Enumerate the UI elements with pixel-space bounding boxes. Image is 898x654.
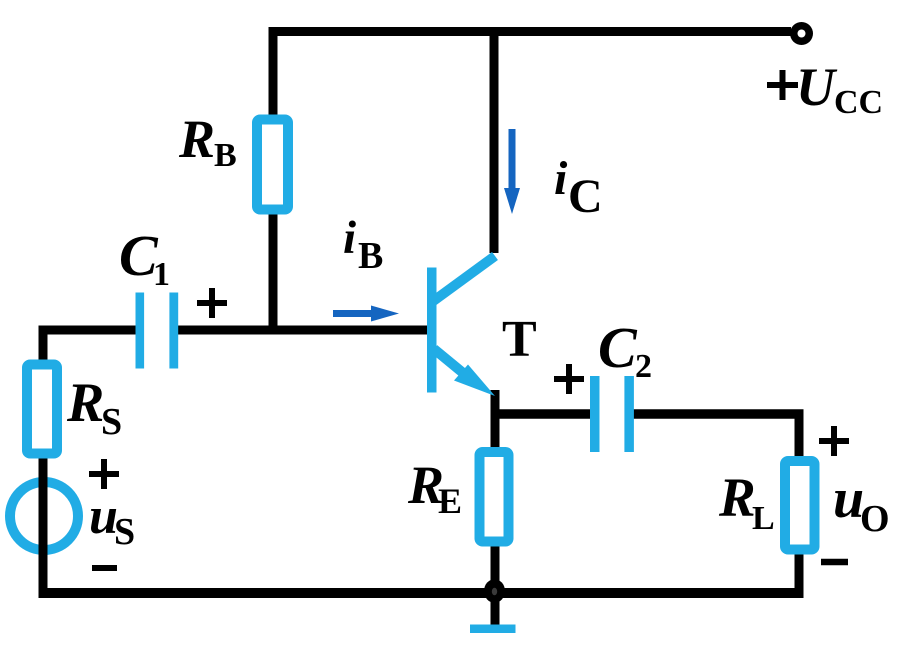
wire emitter horizontal	[491, 409, 592, 419]
minus of u_O	[821, 559, 848, 566]
svg-text:U: U	[796, 57, 838, 117]
transistor Q collector line	[432, 256, 495, 302]
resistor R_L	[785, 461, 815, 550]
resistor R_E	[480, 452, 509, 542]
plus of C2	[554, 364, 584, 394]
svg-text:2: 2	[635, 348, 652, 385]
svg-text:S: S	[114, 511, 135, 553]
arrow i_C	[504, 129, 520, 214]
capacitor C2 plates	[590, 376, 634, 452]
wire right vertical upper	[795, 410, 804, 463]
wire right vertical lower	[795, 549, 804, 598]
label +Ucc plus	[767, 70, 798, 100]
svg-text:L: L	[752, 500, 775, 537]
wire left vertical lower	[39, 452, 48, 598]
resistor R_B	[257, 120, 288, 210]
source u_S circle	[10, 482, 78, 550]
ground	[470, 625, 516, 634]
resistor R_S	[27, 365, 57, 454]
wire left vertical upper	[39, 326, 48, 368]
wire C1 feed	[39, 326, 143, 335]
svg-text:i: i	[554, 152, 568, 205]
wire C2 output	[632, 409, 804, 419]
terminal +Ucc	[790, 22, 813, 45]
svg-text:O: O	[860, 498, 890, 540]
svg-text:B: B	[214, 137, 237, 174]
wire bottom rail	[39, 588, 804, 598]
plus of u_S	[89, 459, 119, 489]
svg-text:i: i	[343, 212, 356, 264]
svg-text:R: R	[66, 372, 104, 434]
minus of u_S	[92, 565, 117, 571]
svg-text:R: R	[718, 467, 756, 528]
svg-text:S: S	[101, 401, 122, 443]
svg-text:CC: CC	[834, 84, 883, 121]
wire emitter vertical	[491, 390, 500, 455]
svg-text:T: T	[502, 311, 537, 368]
svg-text:C: C	[598, 315, 638, 380]
junction node	[484, 579, 505, 603]
wire R_E bottom	[491, 542, 500, 592]
wire collector stub	[490, 27, 499, 253]
wire R_B top branch	[269, 27, 278, 121]
wire base	[174, 326, 433, 335]
svg-text:E: E	[438, 481, 462, 521]
plus of C1	[197, 288, 227, 318]
capacitor C1 plates	[136, 293, 179, 369]
wire ground stub	[491, 589, 500, 625]
transistor Q base bar	[427, 268, 437, 393]
svg-text:R: R	[178, 109, 215, 169]
svg-text:C: C	[568, 170, 603, 223]
plus of u_O	[819, 426, 849, 456]
svg-text:B: B	[358, 235, 383, 277]
wire top rail	[269, 27, 792, 36]
wire R_B bottom branch	[269, 209, 278, 335]
transistor Q emitter line	[434, 349, 495, 396]
svg-text:1: 1	[153, 256, 170, 293]
arrow i_B	[333, 306, 399, 322]
